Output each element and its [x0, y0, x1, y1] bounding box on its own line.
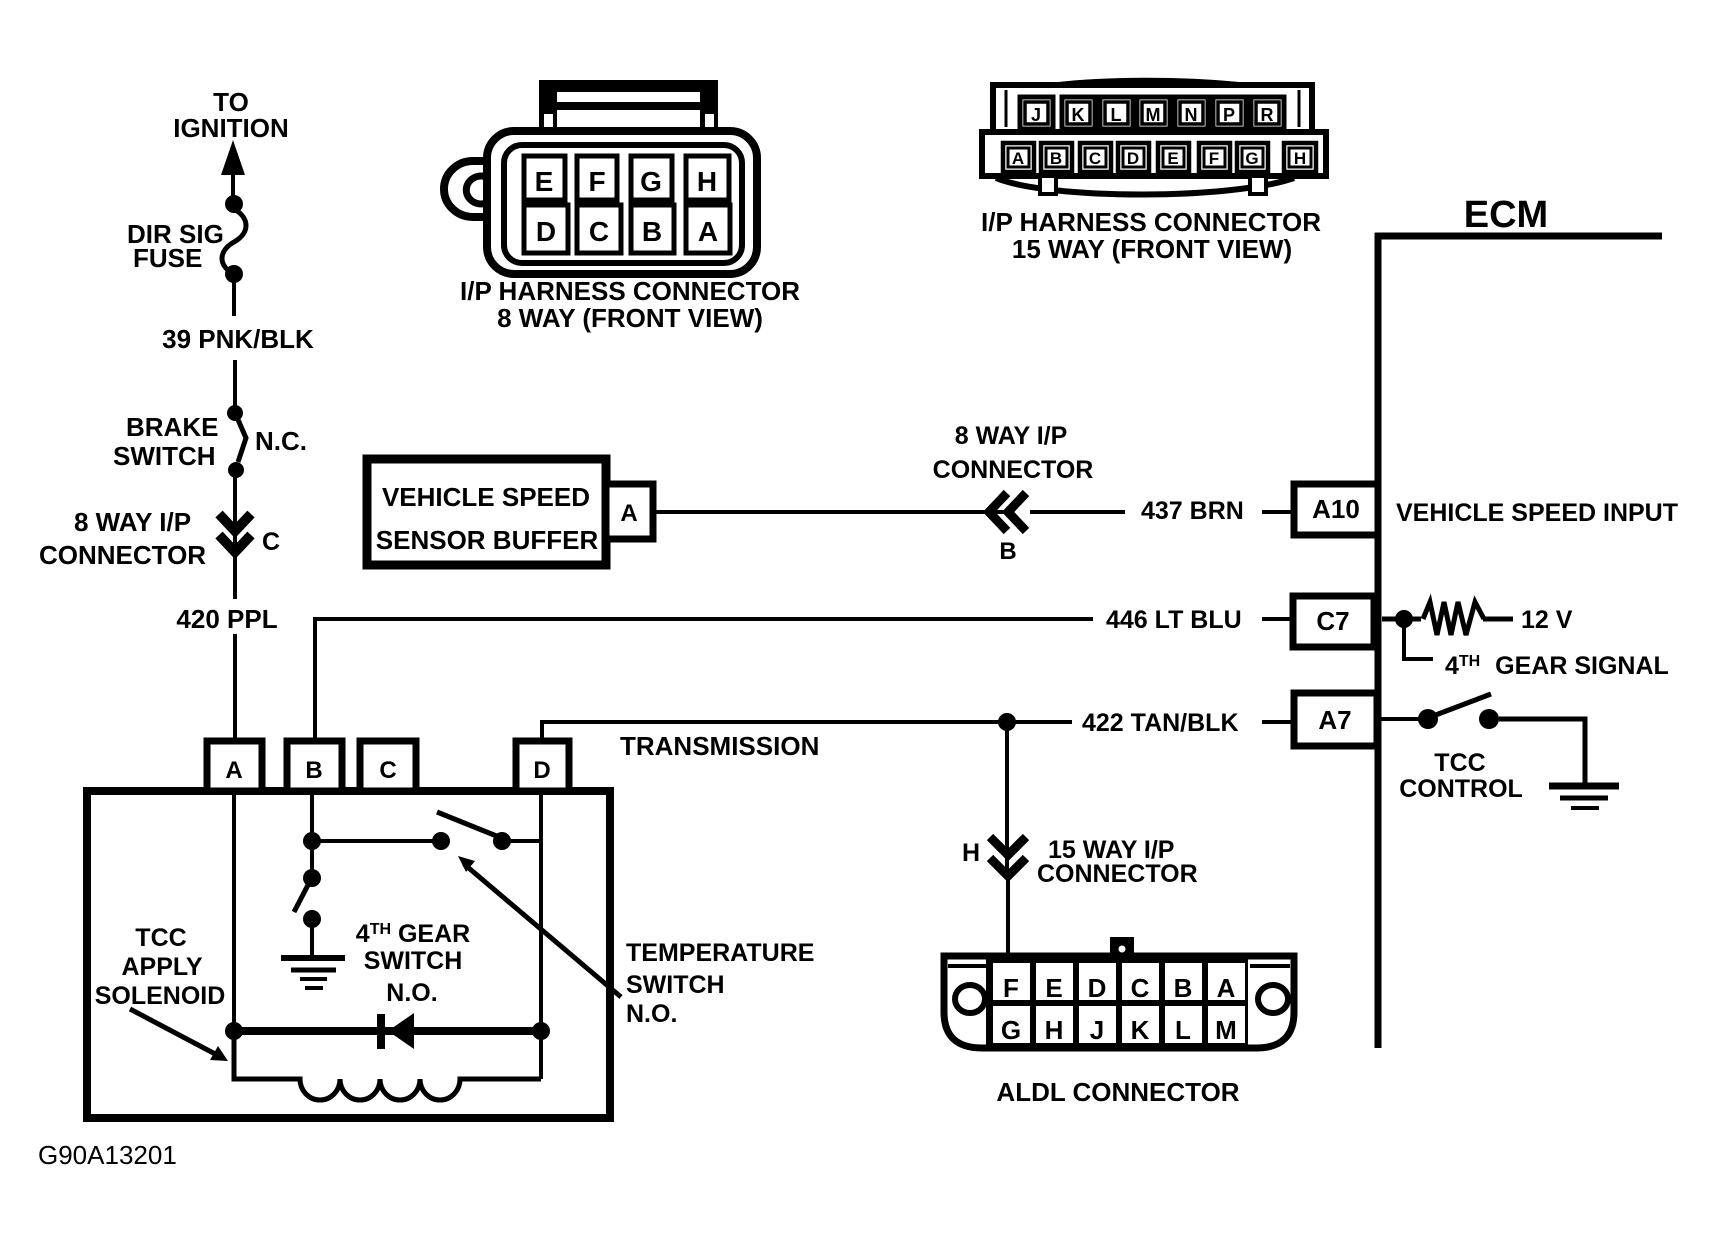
svg-text:8 WAY (FRONT VIEW): 8 WAY (FRONT VIEW)	[497, 303, 763, 333]
connector 15-way end detail lines	[1005, 90, 1008, 127]
svg-text:C: C	[262, 528, 280, 556]
wire below fuse	[232, 280, 236, 316]
svg-text:M: M	[1215, 1015, 1237, 1045]
ALDL connector body	[944, 956, 1294, 1048]
svg-text:422 TAN/BLK: 422 TAN/BLK	[1082, 709, 1239, 737]
svg-text:N: N	[1185, 105, 1198, 125]
wire 446 LT BLU from transmission pin B	[315, 619, 1093, 744]
pin A	[686, 205, 730, 253]
wire pin A left rail	[232, 791, 236, 1029]
pin C	[577, 205, 621, 253]
wire TCC switch to ground	[1499, 719, 1585, 783]
svg-text:ECM: ECM	[1464, 194, 1548, 236]
svg-text:D: D	[1088, 973, 1107, 1003]
svg-text:D: D	[1127, 149, 1139, 168]
svg-text:TCC: TCC	[1434, 749, 1485, 777]
svg-text:J: J	[1090, 1015, 1104, 1045]
connector chevron H 15-way I/P	[990, 837, 1026, 876]
svg-text:A: A	[1012, 149, 1024, 168]
node junction left rail / diode	[225, 1022, 243, 1040]
connector 15-way bottom tabs	[1040, 176, 1056, 194]
pin L	[1100, 97, 1133, 129]
ECM left boundary line	[1375, 233, 1382, 1048]
wire 422 right stub	[1262, 720, 1294, 724]
svg-text:15 WAY (FRONT VIEW): 15 WAY (FRONT VIEW)	[1012, 234, 1292, 264]
transmission pin B	[287, 741, 342, 791]
svg-text:B: B	[305, 757, 322, 784]
pin G2	[1237, 143, 1268, 172]
svg-text:420 PPL: 420 PPL	[176, 604, 277, 634]
ALDL pin E	[1036, 963, 1073, 1003]
ECM pin A7	[1294, 693, 1377, 746]
pin H2	[1284, 143, 1316, 172]
pin D2	[1118, 143, 1149, 172]
pin P	[1213, 97, 1246, 129]
svg-text:B: B	[1050, 149, 1062, 168]
vehicle speed sensor buffer box	[367, 459, 606, 565]
pin E2	[1158, 143, 1189, 172]
svg-text:C: C	[589, 216, 609, 247]
label BRAKE SWITCH	[113, 412, 218, 471]
svg-text:G: G	[1001, 1015, 1021, 1045]
pin R	[1251, 97, 1284, 129]
ALDL pin G	[993, 1006, 1030, 1045]
transmission pin A	[207, 741, 262, 791]
ALDL left mounting hole	[955, 985, 985, 1013]
svg-text:F: F	[588, 166, 605, 197]
wire temp switch to right rail	[508, 839, 543, 843]
label 8 WAY I/P CONNECTOR middle	[933, 422, 1094, 484]
ALDL pin grid	[986, 958, 1248, 1046]
svg-text:TCC: TCC	[135, 924, 186, 952]
transmission enclosure box	[87, 791, 610, 1118]
ground TCC	[1549, 786, 1619, 808]
wire A7 to TCC switch	[1381, 717, 1420, 721]
svg-text:P: P	[1223, 105, 1235, 125]
svg-text:C: C	[1089, 149, 1101, 168]
wire right rail to coil	[539, 1031, 543, 1079]
svg-text:G: G	[1245, 149, 1258, 168]
brake switch N.C.	[227, 405, 246, 478]
svg-text:E: E	[535, 166, 554, 197]
wire 39 PNK/BLK	[233, 360, 237, 407]
svg-text:39 PNK/BLK: 39 PNK/BLK	[162, 324, 314, 354]
ALDL pin M	[1208, 1006, 1245, 1045]
ALDL pin J	[1079, 1006, 1116, 1045]
svg-text:CONTROL: CONTROL	[1399, 775, 1523, 803]
wire junction to temp switch	[312, 839, 437, 843]
connector 15-way bottom arc	[996, 178, 1294, 195]
svg-text:K: K	[1072, 105, 1085, 125]
ALDL pin K	[1122, 1006, 1159, 1045]
svg-text:F: F	[1003, 973, 1019, 1003]
svg-text:K: K	[1131, 1015, 1150, 1045]
wire 4th gear signal elbow	[1404, 626, 1433, 659]
svg-text:H: H	[1045, 1015, 1064, 1045]
wire 422 junction down	[1005, 727, 1009, 875]
arrow to solenoid	[130, 1009, 228, 1061]
wire resistor to 12V	[1483, 617, 1513, 622]
svg-text:VEHICLE SPEED INPUT: VEHICLE SPEED INPUT	[1396, 499, 1678, 527]
connector chevron C 8-way I/P	[219, 514, 251, 552]
svg-text:N.O.: N.O.	[626, 1000, 677, 1028]
svg-text:12 V: 12 V	[1521, 606, 1573, 634]
node junction at C7	[1395, 610, 1413, 628]
svg-text:I/P HARNESS CONNECTOR: I/P HARNESS CONNECTOR	[460, 276, 800, 306]
ALDL pin F	[993, 963, 1030, 1003]
connector 8-way body outer	[487, 131, 757, 274]
connector 8-way ear inner detail	[466, 176, 489, 204]
svg-text:G: G	[640, 166, 662, 197]
node junction 422/ALDL	[998, 713, 1016, 731]
label 8 WAY I/P CONNECTOR left	[39, 507, 206, 570]
label 15 WAY I/P CONNECTOR	[1037, 836, 1198, 888]
svg-text:SWITCH: SWITCH	[364, 947, 463, 975]
pin B2	[1041, 143, 1072, 172]
pin F	[577, 156, 617, 200]
pin J	[1020, 97, 1053, 129]
node junction right rail / diode	[532, 1022, 550, 1040]
connector 8-way handle	[539, 80, 718, 135]
svg-text:R: R	[1261, 105, 1274, 125]
svg-text:H: H	[962, 839, 980, 867]
pin M	[1137, 97, 1170, 129]
label TO IGNITION	[173, 87, 289, 143]
ALDL right mounting hole	[1258, 985, 1288, 1013]
pin C2	[1080, 143, 1111, 172]
svg-text:8 WAY I/P: 8 WAY I/P	[74, 507, 191, 537]
svg-text:CONNECTOR: CONNECTOR	[1037, 860, 1198, 888]
ALDL pin B	[1165, 963, 1202, 1003]
svg-text:C7: C7	[1316, 606, 1349, 636]
svg-text:M: M	[1146, 105, 1161, 125]
label TCC APPLY SOLENOID	[95, 924, 226, 1010]
connector 8-way ear tab	[444, 161, 490, 217]
pin E	[524, 156, 565, 200]
connector chevron B 8-way I/P	[989, 493, 1026, 531]
ECM pin A10	[1294, 484, 1378, 535]
svg-text:C: C	[379, 757, 396, 784]
transmission pin C	[360, 741, 416, 791]
wire pin D right rail	[539, 791, 543, 1029]
connector 15-way top row housing	[993, 85, 1312, 132]
svg-text:C: C	[1131, 973, 1150, 1003]
pin F2	[1199, 143, 1230, 172]
label TEMPERATURE SWITCH N.O.	[626, 939, 814, 1028]
connector 8-way body inner	[504, 145, 742, 263]
svg-text:D: D	[536, 216, 556, 247]
arrow to temperature switch	[458, 856, 621, 997]
svg-text:B: B	[999, 538, 1016, 565]
switch TCC CONTROL	[1418, 694, 1499, 729]
svg-text:E: E	[1045, 973, 1062, 1003]
svg-text:E: E	[1167, 149, 1178, 168]
svg-text:N.O.: N.O.	[386, 979, 437, 1007]
fuse F1 DIR SIG FUSE	[222, 195, 246, 283]
pin B	[631, 205, 674, 253]
svg-text:CONNECTOR: CONNECTOR	[933, 456, 1094, 484]
diode D1	[381, 1013, 414, 1049]
svg-text:TRANSMISSION: TRANSMISSION	[620, 731, 819, 761]
ECM top boundary line	[1375, 233, 1662, 240]
svg-text:APPLY: APPLY	[121, 953, 202, 981]
svg-text:437 BRN: 437 BRN	[1141, 497, 1244, 525]
svg-text:TEMPERATURE: TEMPERATURE	[626, 939, 814, 967]
solenoid coil TCC apply	[234, 1031, 541, 1100]
svg-text:A: A	[698, 216, 718, 247]
svg-text:SENSOR BUFFER: SENSOR BUFFER	[376, 525, 599, 555]
svg-text:B: B	[642, 216, 662, 247]
ECM pin C7	[1293, 596, 1374, 647]
svg-text:H: H	[1294, 149, 1306, 168]
svg-text:H: H	[697, 166, 717, 197]
svg-text:F: F	[1209, 149, 1219, 168]
wire 437 BRN right stub	[1262, 510, 1294, 514]
svg-text:BRAKE: BRAKE	[126, 412, 218, 442]
pin K	[1062, 97, 1095, 129]
ALDL top tab	[1110, 937, 1134, 957]
wire arrow to ignition	[221, 140, 245, 205]
svg-text:A: A	[1217, 973, 1236, 1003]
svg-text:L: L	[1111, 105, 1122, 125]
switch 4th gear N.O.	[294, 845, 321, 957]
wire pin B down	[310, 791, 314, 839]
svg-text:ALDL CONNECTOR: ALDL CONNECTOR	[996, 1077, 1239, 1107]
wire brake switch to connector	[233, 476, 237, 551]
label DIR SIG FUSE	[127, 219, 224, 273]
ALDL pin D	[1079, 963, 1116, 1003]
ALDL pin L	[1165, 1006, 1202, 1045]
svg-text:VEHICLE SPEED: VEHICLE SPEED	[382, 482, 590, 512]
label TCC CONTROL	[1399, 749, 1523, 803]
svg-text:A: A	[620, 500, 637, 527]
svg-text:D: D	[533, 757, 550, 784]
svg-text:J: J	[1031, 105, 1041, 125]
svg-text:A10: A10	[1312, 494, 1360, 524]
pin D	[524, 205, 568, 253]
svg-text:8 WAY I/P: 8 WAY I/P	[955, 422, 1068, 450]
svg-text:446 LT BLU: 446 LT BLU	[1106, 606, 1242, 634]
svg-text:G90A13201: G90A13201	[38, 1140, 177, 1170]
connector 15-way top arc	[999, 81, 1306, 98]
wire 446 right stub	[1262, 617, 1293, 621]
svg-text:N.C.: N.C.	[255, 426, 307, 456]
svg-text:A: A	[225, 757, 242, 784]
switch temperature N.O.	[432, 812, 511, 850]
wire C7 to resistor	[1382, 617, 1421, 622]
svg-text:FUSE: FUSE	[133, 243, 202, 273]
pin A2	[1003, 143, 1034, 172]
wire chevron to ALDL	[1006, 876, 1010, 956]
svg-text:SOLENOID: SOLENOID	[95, 982, 226, 1010]
svg-text:IGNITION: IGNITION	[173, 113, 289, 143]
wire vss buffer to 8-way connector	[653, 510, 1009, 514]
pin A vss buffer	[606, 484, 653, 539]
wire 420 PPL to pin A	[233, 634, 237, 744]
ALDL pin A	[1208, 963, 1245, 1003]
ground 4th gear switch	[281, 958, 345, 988]
svg-text:L: L	[1175, 1015, 1191, 1045]
connector 15-way bottom row housing	[982, 132, 1326, 176]
pin N	[1175, 97, 1208, 129]
svg-text:A7: A7	[1318, 705, 1351, 735]
wire 422 TAN/BLK from transmission pin D	[542, 722, 1072, 744]
label I/P HARNESS CONNECTOR 8 WAY	[460, 276, 800, 333]
svg-text:I/P HARNESS CONNECTOR: I/P HARNESS CONNECTOR	[981, 207, 1321, 237]
resistor pull-up	[1423, 602, 1484, 635]
svg-text:CONNECTOR: CONNECTOR	[39, 540, 206, 570]
ALDL pin H	[1036, 1006, 1073, 1045]
label I/P HARNESS CONNECTOR 15 WAY	[981, 207, 1321, 264]
node junction B inside	[303, 832, 321, 850]
wire 437 BRN left segment	[1030, 510, 1125, 514]
wire diode rail	[234, 1027, 541, 1035]
pin G	[631, 156, 672, 200]
label 4TH GEAR SWITCH N.O.	[356, 920, 470, 1007]
svg-text:SWITCH: SWITCH	[626, 971, 725, 999]
transmission pin D	[516, 741, 569, 791]
ALDL pin C	[1122, 963, 1159, 1003]
wire below chevron	[233, 552, 237, 599]
svg-text:SWITCH: SWITCH	[113, 441, 216, 471]
svg-text:B: B	[1174, 973, 1193, 1003]
pin H	[686, 156, 729, 200]
ALDL end detail lines	[948, 964, 990, 968]
